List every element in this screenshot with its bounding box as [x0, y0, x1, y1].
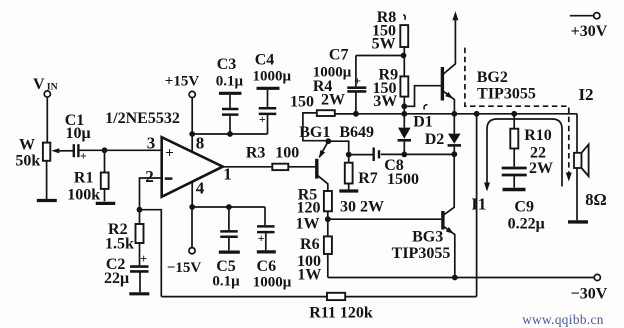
resistor R3 100: [272, 164, 288, 170]
svg-text:D2: D2: [425, 131, 445, 148]
svg-text:1W: 1W: [296, 215, 320, 232]
ground pot: [37, 199, 57, 202]
resistor R2 1.5k: [139, 210, 141, 224]
svg-text:I1: I1: [471, 195, 486, 214]
svg-text:2W: 2W: [321, 92, 345, 109]
svg-text:R1: R1: [74, 170, 94, 187]
ground C6: [257, 250, 276, 253]
wire speaker to ground: [576, 168, 578, 220]
svg-text:R6: R6: [300, 236, 320, 253]
label D1 pointer mark: [424, 105, 427, 110]
svg-text:3W: 3W: [373, 93, 397, 110]
wire -15V rail: [192, 206, 265, 208]
svg-text:+: +: [165, 145, 174, 161]
current loop I2 dashed: [465, 48, 569, 174]
svg-text:30 2W: 30 2W: [340, 199, 384, 216]
svg-text:www.qqibb.cn: www.qqibb.cn: [522, 312, 604, 327]
svg-text:V: V: [33, 76, 45, 93]
wire potentiometer wiper: [58, 150, 74, 152]
svg-text:120: 120: [297, 200, 321, 217]
transistor Q2 BG2 TIP3055 upper: [441, 67, 444, 101]
ground C9: [503, 188, 526, 191]
capacitor C8 1500: [373, 148, 375, 162]
wire output rail to speaker: [576, 114, 578, 153]
capacitor C2 22u: [130, 265, 149, 268]
wire inverting input pin2: [140, 178, 162, 208]
svg-text:C4: C4: [255, 52, 275, 69]
svg-text:+: +: [258, 231, 265, 245]
svg-text:C3: C3: [217, 56, 237, 73]
wire emitter node to R7 node: [328, 141, 348, 154]
potentiometer W 50k: [43, 143, 50, 161]
wire BG2 base tap: [404, 86, 441, 107]
svg-text:150: 150: [290, 94, 314, 111]
wire R4 wrap to emitter node: [303, 113, 327, 141]
resistor R11 120k: [327, 293, 345, 300]
svg-text:1.5k: 1.5k: [105, 236, 134, 253]
svg-text:1/2NE5532: 1/2NE5532: [105, 110, 180, 127]
svg-text:R3: R3: [246, 144, 266, 161]
node R7 junction: [346, 152, 352, 158]
resistor R4 150 2W: [317, 110, 335, 116]
ground R1: [96, 202, 116, 205]
svg-text:1500: 1500: [387, 171, 419, 188]
svg-text:TIP3055: TIP3055: [477, 86, 536, 103]
node BG3 emitter junction: [452, 275, 458, 281]
resistor R10 22 2W: [513, 114, 515, 129]
resistor R9 150 3W: [403, 56, 405, 77]
transistor Q1 BG1 B649: [315, 159, 318, 179]
wire R4 to rail: [335, 113, 356, 115]
capacitor C1 10u: [73, 144, 75, 157]
svg-text:C6: C6: [257, 258, 277, 275]
svg-text:100: 100: [275, 145, 299, 162]
svg-text:8: 8: [196, 134, 205, 153]
node -15V terminal: [189, 248, 195, 254]
wire +15V rail: [192, 133, 267, 135]
resistor R5 120 1W: [327, 191, 329, 193]
node D2 bottom junction: [451, 151, 457, 157]
capacitor C6 1000u: [264, 207, 266, 225]
svg-text:BG3: BG3: [412, 229, 443, 246]
svg-text:D1: D1: [413, 114, 433, 131]
op-amp U1 1/2NE5532: [162, 137, 223, 197]
wire potentiometer bottom to ground: [46, 161, 48, 199]
node C7 junction: [353, 111, 359, 117]
node D1 bottom junction: [401, 152, 407, 158]
svg-text:1000μ: 1000μ: [253, 275, 292, 291]
wire C1 to node A: [78, 149, 161, 151]
svg-text:4: 4: [196, 179, 205, 198]
capacitor C3 0.1u: [227, 131, 233, 137]
speaker 8 ohm: [574, 153, 582, 168]
node R8 R9 junction: [401, 53, 407, 59]
node D2 rail junction: [451, 111, 457, 117]
ground C3: [219, 92, 242, 95]
node A junction: [102, 147, 108, 153]
wire +15V to pin8: [191, 98, 193, 134]
svg-text:IN: IN: [47, 81, 58, 92]
capacitor C5 0.1u: [226, 204, 232, 210]
node R5 R6 junction: [325, 216, 331, 222]
svg-text:C5: C5: [216, 258, 236, 275]
resistor R7 30 2W: [348, 155, 350, 163]
wire feedback bottom: [161, 296, 327, 298]
svg-text:TIP3055: TIP3055: [392, 245, 451, 262]
wire -30V rail: [328, 277, 594, 279]
svg-text:8Ω: 8Ω: [585, 190, 606, 209]
svg-text:2W: 2W: [529, 160, 553, 177]
wire pin2 node to feedback: [140, 210, 162, 297]
svg-text:+: +: [140, 252, 147, 266]
node B junction pin2: [137, 207, 143, 213]
wire C7 to R8/R9 junction: [356, 55, 404, 57]
current loop I1: [487, 119, 562, 187]
node BG1 emitter junction: [325, 138, 331, 144]
wire pin8 into op-amp: [191, 134, 193, 153]
svg-text:10μ: 10μ: [65, 125, 90, 142]
wire feedback vertical to output: [476, 114, 478, 297]
node pin8 junction: [189, 131, 195, 137]
node -30V terminal: [594, 274, 600, 280]
svg-text:+15V: +15V: [165, 73, 200, 89]
svg-text:22μ: 22μ: [104, 270, 129, 287]
svg-text:R7: R7: [358, 170, 378, 187]
ground C2: [129, 292, 149, 295]
capacitor C4 1000u: [267, 115, 269, 134]
svg-text:2: 2: [145, 167, 154, 186]
svg-text:W: W: [19, 137, 35, 154]
svg-text:50k: 50k: [15, 152, 40, 169]
node +30V terminal: [570, 15, 594, 17]
node pin4 junction: [189, 204, 195, 210]
svg-text:1000μ: 1000μ: [313, 65, 352, 81]
ground C4: [257, 87, 280, 90]
svg-text:BG2: BG2: [477, 69, 508, 86]
wire C8 to R7 node: [349, 154, 373, 156]
svg-text:0.22μ: 0.22μ: [508, 216, 545, 233]
capacitor C7 1000u: [355, 92, 357, 113]
svg-text:100k: 100k: [67, 186, 100, 203]
svg-text:R10: R10: [524, 127, 552, 144]
ground speaker: [568, 220, 588, 223]
ground C5: [219, 251, 240, 254]
svg-text:22: 22: [530, 145, 546, 162]
wire -15V to pin4: [191, 207, 193, 248]
wire feedback right: [345, 296, 476, 298]
svg-text:0.1μ: 0.1μ: [212, 274, 240, 290]
svg-text:1000μ: 1000μ: [252, 69, 291, 85]
wire to BG3 base: [328, 218, 442, 220]
node R9 bottom junction: [401, 103, 407, 109]
svg-text:BG1: BG1: [299, 124, 330, 141]
svg-text:5W: 5W: [372, 35, 396, 52]
svg-text:I2: I2: [578, 85, 593, 104]
resistor R8 150 5W: [400, 25, 408, 47]
svg-text:R11 120k: R11 120k: [309, 305, 373, 322]
wire main bias rail: [335, 113, 577, 115]
wire R3 to BG1 base: [288, 166, 315, 168]
svg-text:+30V: +30V: [571, 23, 608, 40]
ground R7: [339, 189, 358, 192]
svg-text:C9: C9: [514, 199, 534, 216]
svg-text:0.1μ: 0.1μ: [216, 74, 244, 90]
svg-text:−15V: −15V: [167, 260, 202, 276]
svg-text:1W: 1W: [297, 266, 321, 283]
wire VIN to potentiometer: [46, 97, 48, 142]
wire pin4 from op-amp: [191, 181, 193, 208]
resistor R6 100 1W: [327, 219, 329, 236]
diode D1: [403, 114, 405, 128]
diode D2: [453, 114, 455, 134]
svg-text:−30V: −30V: [571, 286, 608, 303]
wire diode bottom bus: [381, 153, 455, 155]
node VIN terminal: [44, 91, 50, 97]
node D1 rail junction: [401, 111, 407, 117]
transistor Q3 BG3 TIP3055 lower: [441, 211, 444, 230]
svg-text:C7: C7: [329, 47, 349, 64]
node feedback output junction: [474, 111, 480, 117]
wire op-amp output: [223, 166, 272, 168]
svg-text:+: +: [259, 112, 266, 126]
node R10 rail junction: [511, 111, 517, 117]
resistor R1 100k: [104, 150, 106, 172]
svg-text:3: 3: [147, 134, 156, 153]
node +15V terminal: [189, 91, 195, 97]
capacitor C9 0.22u: [502, 167, 527, 170]
svg-text:B649: B649: [339, 124, 374, 141]
